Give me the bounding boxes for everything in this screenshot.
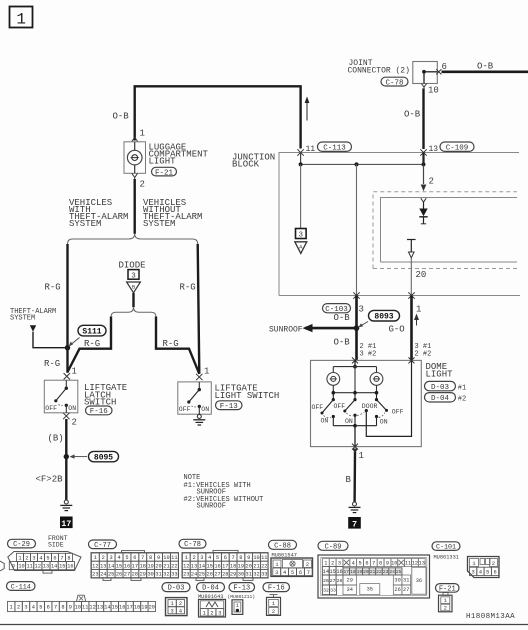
svg-text:29: 29 — [140, 572, 146, 578]
svg-text:26: 26 — [323, 578, 329, 584]
svg-text:R-G: R-G — [180, 283, 196, 293]
svg-text:17: 17 — [344, 569, 350, 575]
svg-text:15: 15 — [207, 563, 213, 569]
svg-text:#2: #2 — [458, 396, 466, 404]
svg-text:MU801331: MU801331 — [434, 554, 459, 560]
svg-text:R-G: R-G — [45, 283, 61, 293]
svg-text:33: 33 — [261, 572, 267, 578]
svg-text:8: 8 — [67, 555, 70, 561]
wire to pin 6 — [424, 71, 437, 73]
svg-text:11: 11 — [26, 564, 32, 570]
connector C-114 — [7, 582, 36, 591]
svg-text:12: 12 — [35, 564, 41, 570]
wire R-G right branch — [198, 244, 200, 374]
svg-text:SIDE: SIDE — [48, 542, 64, 549]
svg-text:4: 4 — [208, 555, 211, 561]
svg-text:DIODE: DIODE — [119, 260, 146, 270]
switch contacts — [332, 415, 335, 418]
svg-text:7: 7 — [352, 519, 357, 529]
svg-text:1: 1 — [472, 561, 475, 567]
svg-text:3: 3 — [24, 605, 27, 611]
svg-text:21: 21 — [253, 563, 259, 569]
page edge mark — [0, 561, 4, 571]
svg-text:4: 4 — [479, 569, 482, 575]
svg-text:22: 22 — [376, 569, 382, 575]
liftgate latch switch F-16 — [44, 380, 78, 413]
svg-text:LIGHT SWITCH: LIGHT SWITCH — [215, 391, 280, 401]
svg-text:24: 24 — [191, 572, 197, 578]
svg-text:14: 14 — [51, 564, 57, 570]
wire from diode pointer — [132, 293, 134, 307]
svg-text:36: 36 — [416, 578, 422, 584]
svg-text:12: 12 — [183, 563, 189, 569]
svg-text:D-03: D-03 — [168, 585, 185, 593]
svg-text:C-78: C-78 — [385, 79, 403, 87]
svg-text:21: 21 — [370, 569, 376, 575]
svg-text:5: 5 — [39, 605, 42, 611]
svg-text:4: 4 — [179, 608, 182, 614]
svg-text:22: 22 — [261, 563, 267, 569]
junction dot 8095 — [64, 454, 69, 459]
svg-text:R-G: R-G — [44, 359, 60, 369]
svg-text:B: B — [346, 475, 352, 485]
svg-text:D-04: D-04 — [431, 395, 450, 403]
svg-text:5: 5 — [291, 570, 294, 576]
svg-text:11: 11 — [171, 555, 177, 561]
svg-text:16: 16 — [214, 563, 220, 569]
svg-text:18: 18 — [134, 605, 140, 611]
dashed travel arcs — [324, 416, 332, 418]
svg-text:10: 10 — [18, 564, 24, 570]
svg-text:19: 19 — [141, 605, 147, 611]
svg-text:1: 1 — [72, 367, 77, 377]
wire B dome to ground — [353, 452, 356, 502]
wire G-O junction to dome light — [410, 296, 413, 361]
svg-text:17: 17 — [61, 519, 71, 529]
connector C-88 — [269, 540, 297, 549]
liftgate light switch F-13 — [178, 382, 212, 414]
svg-text:#1: #1 — [458, 384, 466, 392]
svg-text:26: 26 — [116, 572, 122, 578]
svg-text:1: 1 — [16, 11, 26, 29]
svg-text:SYSTEM: SYSTEM — [143, 219, 175, 229]
svg-text:1: 1 — [204, 367, 209, 377]
svg-text:3: 3 — [472, 569, 475, 575]
svg-text:OFF: OFF — [312, 404, 324, 411]
svg-text:15: 15 — [59, 564, 65, 570]
svg-text:34: 34 — [347, 587, 353, 593]
ground symbol light switch — [197, 414, 201, 418]
luggage compartment light F-21 lamp — [124, 142, 146, 174]
svg-text:10: 10 — [391, 561, 397, 567]
svg-text:C-109: C-109 — [446, 144, 469, 152]
svg-text:6: 6 — [53, 555, 56, 561]
pin 11 connector C-113 — [297, 149, 303, 155]
svg-text:28: 28 — [222, 572, 228, 578]
svg-text:3: 3 — [131, 272, 136, 280]
svg-text:1: 1 — [416, 305, 421, 315]
wire pin13 down to pin 2 entry — [422, 153, 424, 165]
svg-text:7: 7 — [307, 570, 310, 576]
ground reference box 7 — [348, 517, 361, 529]
svg-text:F-16: F-16 — [268, 585, 285, 593]
svg-text:2: 2 — [179, 601, 182, 607]
arrow from S111 to junction — [71, 338, 80, 345]
svg-text:4: 4 — [32, 605, 35, 611]
svg-text:26: 26 — [207, 572, 213, 578]
svg-text:2: 2 — [429, 177, 434, 187]
svg-text:9: 9 — [386, 561, 389, 567]
svg-text:12: 12 — [89, 605, 95, 611]
pin 1 dome bottom — [352, 444, 358, 450]
arrow up on wire — [306, 102, 308, 121]
connector F-21 pinout — [436, 584, 460, 593]
junction dot S111 — [65, 345, 70, 350]
svg-text:8: 8 — [149, 555, 152, 561]
svg-text:1: 1 — [171, 601, 174, 607]
pointer box 3 triangle A — [296, 229, 307, 239]
svg-text:2: 2 — [306, 562, 309, 568]
svg-text:2: 2 — [193, 555, 196, 561]
svg-text:14: 14 — [323, 569, 329, 575]
bus wire in junction block — [301, 163, 424, 165]
svg-text:28: 28 — [337, 578, 343, 584]
junction block outline — [279, 153, 519, 296]
connector C-25 front side — [8, 539, 36, 548]
svg-text:3: 3 — [110, 555, 113, 561]
svg-text:18: 18 — [230, 563, 236, 569]
svg-text:6: 6 — [224, 555, 227, 561]
svg-text:31: 31 — [403, 578, 409, 584]
wire to pin 3 C-103 — [356, 164, 358, 295]
svg-text:1: 1 — [236, 603, 239, 609]
svg-text:7: 7 — [60, 555, 63, 561]
svg-text:3: 3 — [171, 608, 174, 614]
svg-text:11: 11 — [405, 561, 411, 567]
svg-text:F-13: F-13 — [233, 585, 250, 593]
svg-text:1: 1 — [275, 562, 278, 568]
svg-text:13: 13 — [100, 563, 106, 569]
svg-text:15: 15 — [116, 563, 122, 569]
svg-text:14: 14 — [104, 605, 110, 611]
svg-text:C-78: C-78 — [184, 541, 201, 549]
svg-text:11: 11 — [306, 145, 316, 154]
wire O-B right — [442, 71, 528, 74]
svg-text:6: 6 — [442, 62, 447, 72]
svg-text:13: 13 — [43, 564, 49, 570]
svg-text:3 #2: 3 #2 — [360, 350, 377, 358]
svg-text:<F>2B: <F>2B — [36, 475, 64, 485]
svg-text:10: 10 — [163, 555, 169, 561]
svg-text:3: 3 — [218, 610, 221, 616]
svg-text:33: 33 — [171, 572, 177, 578]
pin 2 latch switch — [63, 413, 69, 419]
svg-text:9: 9 — [157, 555, 160, 561]
svg-text:OFF: OFF — [179, 406, 191, 413]
svg-text:28: 28 — [132, 572, 138, 578]
svg-text:LIGHT: LIGHT — [426, 369, 454, 379]
svg-text:15: 15 — [112, 605, 118, 611]
svg-text:32: 32 — [163, 572, 169, 578]
inner solid box — [381, 198, 518, 263]
svg-text:31: 31 — [155, 572, 161, 578]
brace split — [68, 234, 198, 244]
joint connector box — [413, 62, 438, 84]
svg-text:F-21: F-21 — [155, 169, 174, 177]
svg-text:32: 32 — [323, 588, 329, 594]
dome lamp right — [370, 373, 383, 386]
svg-text:O-B: O-B — [477, 62, 494, 72]
svg-text:1: 1 — [272, 601, 275, 607]
svg-text:20: 20 — [155, 563, 161, 569]
lamp bottom bus — [332, 385, 334, 392]
svg-text:2: 2 — [331, 561, 334, 567]
svg-text:ON: ON — [68, 405, 76, 412]
svg-text:4: 4 — [117, 555, 120, 561]
svg-text:31: 31 — [246, 572, 252, 578]
svg-text:33: 33 — [330, 588, 336, 594]
svg-text:SYSTEM: SYSTEM — [69, 219, 101, 229]
svg-text:5: 5 — [216, 555, 219, 561]
svg-text:NOTE: NOTE — [184, 474, 201, 482]
connector F-13 pinout — [229, 583, 255, 592]
svg-text:8093: 8093 — [374, 313, 393, 322]
connector C-89 pinout — [318, 541, 348, 550]
svg-text:23: 23 — [383, 569, 389, 575]
svg-text:1: 1 — [444, 598, 447, 604]
switch arms — [322, 400, 333, 413]
connector C-78 pinout — [179, 539, 206, 548]
dome internal supply wiring — [354, 360, 356, 366]
svg-text:30: 30 — [238, 572, 244, 578]
svg-text:9: 9 — [69, 605, 72, 611]
svg-text:1: 1 — [359, 451, 364, 461]
svg-text:5: 5 — [486, 569, 489, 575]
pin 1 of junction block — [408, 292, 414, 298]
svg-text:2: 2 — [17, 605, 20, 611]
svg-text:7: 7 — [141, 555, 144, 561]
sunroof feed arrow — [305, 327, 357, 330]
splice 8093 — [369, 310, 400, 321]
svg-text:C-113: C-113 — [323, 144, 346, 152]
ground symbol dome — [353, 502, 357, 506]
svg-text:C-77: C-77 — [94, 542, 111, 550]
svg-text:3: 3 — [275, 570, 278, 576]
svg-text:27: 27 — [403, 587, 409, 593]
svg-text:8095: 8095 — [94, 453, 113, 462]
wire R-G left branch — [66, 244, 68, 373]
svg-text:20: 20 — [416, 270, 427, 280]
svg-text:D-03: D-03 — [431, 384, 450, 392]
svg-text:20: 20 — [246, 563, 252, 569]
svg-text:19: 19 — [238, 563, 244, 569]
svg-text:5: 5 — [125, 555, 128, 561]
connector C-101 — [432, 542, 460, 551]
svg-text:5: 5 — [46, 555, 49, 561]
svg-text:4: 4 — [39, 555, 42, 561]
connector D-03 pinout — [162, 583, 190, 592]
pin 3 of junction block — [353, 292, 359, 298]
svg-text:ON: ON — [201, 406, 209, 413]
svg-text:3: 3 — [338, 561, 341, 567]
svg-text:H1808M13AA: H1808M13AA — [466, 613, 515, 621]
svg-text:OFF: OFF — [334, 403, 346, 410]
svg-text:ON: ON — [321, 418, 329, 425]
svg-text:17: 17 — [126, 605, 132, 611]
svg-text:6: 6 — [299, 570, 302, 576]
pin 13 connector C-109 — [420, 149, 426, 155]
svg-text:C-114: C-114 — [11, 583, 31, 591]
svg-text:2: 2 — [102, 555, 105, 561]
svg-text:2: 2 — [444, 606, 447, 612]
svg-text:13: 13 — [419, 561, 425, 567]
pin 10 — [423, 72, 425, 84]
wire O-B down to pin 13 — [422, 89, 424, 150]
svg-text:3: 3 — [299, 232, 304, 240]
svg-text:20: 20 — [363, 569, 369, 575]
svg-text:LIGHT: LIGHT — [149, 157, 177, 167]
svg-text:11: 11 — [82, 605, 88, 611]
svg-text:OFF: OFF — [45, 405, 57, 412]
svg-text:32: 32 — [253, 572, 259, 578]
svg-text:2: 2 — [72, 418, 77, 428]
svg-text:6: 6 — [365, 561, 368, 567]
svg-text:27: 27 — [214, 572, 220, 578]
svg-text:O-B: O-B — [404, 110, 421, 120]
svg-text:2: 2 — [25, 555, 28, 561]
svg-text:ON: ON — [345, 418, 353, 425]
svg-text:19: 19 — [357, 569, 363, 575]
svg-text:16: 16 — [67, 564, 73, 570]
svg-text:30: 30 — [394, 578, 400, 584]
diode branch left leg wire — [68, 317, 112, 373]
svg-text:8: 8 — [61, 605, 64, 611]
svg-text:7: 7 — [232, 555, 235, 561]
terminal link to pin 20 — [407, 239, 416, 241]
svg-text:O-B: O-B — [334, 313, 351, 323]
dome light box — [311, 360, 422, 446]
svg-text:BLOCK: BLOCK — [232, 160, 260, 170]
connector label F-21 — [152, 167, 177, 176]
svg-text:18: 18 — [350, 569, 356, 575]
dashed box in junction block — [373, 192, 517, 269]
svg-text:15: 15 — [329, 569, 335, 575]
svg-text:F-16: F-16 — [90, 408, 109, 416]
connector D-04 pinout — [197, 583, 225, 592]
svg-text:2 #2: 2 #2 — [415, 350, 432, 358]
svg-text:3: 3 — [200, 555, 203, 561]
svg-text:1: 1 — [94, 555, 97, 561]
svg-text:35: 35 — [367, 587, 373, 593]
ground reference box 17 — [60, 517, 73, 529]
svg-text:5: 5 — [358, 561, 361, 567]
svg-text:C-29: C-29 — [13, 541, 30, 549]
splice 8095 — [89, 451, 119, 461]
svg-text:2: 2 — [210, 610, 213, 616]
svg-text:O-B: O-B — [113, 112, 130, 122]
svg-text:16: 16 — [119, 605, 125, 611]
svg-text:9: 9 — [12, 564, 15, 570]
connector F-16 pinout — [263, 583, 290, 592]
svg-text:2: 2 — [492, 561, 495, 567]
svg-text:6: 6 — [133, 555, 136, 561]
junction dot 8093 — [354, 325, 360, 331]
bottom rule — [0, 624, 528, 626]
svg-text:12: 12 — [92, 563, 98, 569]
splice S111 — [78, 325, 106, 336]
svg-text:(MU801211): (MU801211) — [228, 594, 256, 600]
svg-text:17: 17 — [222, 563, 228, 569]
diode in junction block — [421, 198, 426, 202]
svg-text:G-O: G-O — [389, 324, 405, 334]
pointer box 3 with triangle B — [128, 270, 139, 280]
svg-text:SUNROOF: SUNROOF — [197, 503, 226, 511]
svg-text:13: 13 — [191, 563, 197, 569]
svg-text:22: 22 — [171, 563, 177, 569]
svg-text:8: 8 — [379, 561, 382, 567]
svg-text:13: 13 — [97, 605, 103, 611]
svg-text:6: 6 — [493, 569, 496, 575]
svg-text:O-B: O-B — [334, 338, 351, 348]
diode branch right leg wire — [156, 317, 199, 374]
connector C-77 — [89, 540, 117, 549]
svg-text:1: 1 — [203, 610, 206, 616]
wire to pointer A3 — [300, 164, 302, 228]
svg-text:SUNROOF: SUNROOF — [269, 325, 303, 334]
svg-text:19: 19 — [147, 563, 153, 569]
svg-text:OFF: OFF — [392, 409, 404, 416]
svg-text:25: 25 — [108, 572, 114, 578]
svg-text:3: 3 — [359, 305, 364, 315]
svg-text:17: 17 — [132, 563, 138, 569]
svg-text:8: 8 — [239, 555, 242, 561]
svg-text:CONNECTOR (2): CONNECTOR (2) — [348, 67, 410, 76]
svg-text:14: 14 — [199, 563, 205, 569]
svg-text:1: 1 — [10, 605, 13, 611]
svg-text:16: 16 — [124, 563, 130, 569]
svg-text:F-13: F-13 — [220, 403, 239, 411]
svg-text:(B): (B) — [48, 434, 64, 444]
svg-text:26: 26 — [394, 587, 400, 593]
svg-text:2: 2 — [272, 609, 275, 615]
switch pivots — [332, 393, 334, 400]
svg-text:29: 29 — [230, 572, 236, 578]
svg-text:C-89: C-89 — [325, 543, 342, 551]
page number box 1 — [10, 7, 33, 28]
svg-text:18: 18 — [140, 563, 146, 569]
svg-text:3: 3 — [32, 555, 35, 561]
svg-text:10: 10 — [75, 605, 81, 611]
svg-text:1: 1 — [18, 555, 21, 561]
svg-text:25: 25 — [396, 569, 402, 575]
svg-text:14: 14 — [108, 563, 114, 569]
dome lamp left — [327, 373, 340, 386]
svg-text:11: 11 — [261, 555, 267, 561]
wire B from latch switch to ground — [65, 419, 67, 500]
svg-text:DOOR: DOOR — [362, 403, 378, 410]
svg-text:6: 6 — [47, 605, 50, 611]
pin 2 terminal mark — [132, 173, 138, 179]
svg-text:24: 24 — [389, 569, 395, 575]
svg-text:25: 25 — [199, 572, 205, 578]
ground symbol latch — [64, 500, 68, 504]
svg-text:27: 27 — [124, 572, 130, 578]
svg-text:1: 1 — [185, 555, 188, 561]
svg-text:12: 12 — [412, 561, 418, 567]
svg-text:10: 10 — [253, 555, 259, 561]
svg-text:S111: S111 — [82, 327, 101, 336]
svg-text:16: 16 — [336, 569, 342, 575]
